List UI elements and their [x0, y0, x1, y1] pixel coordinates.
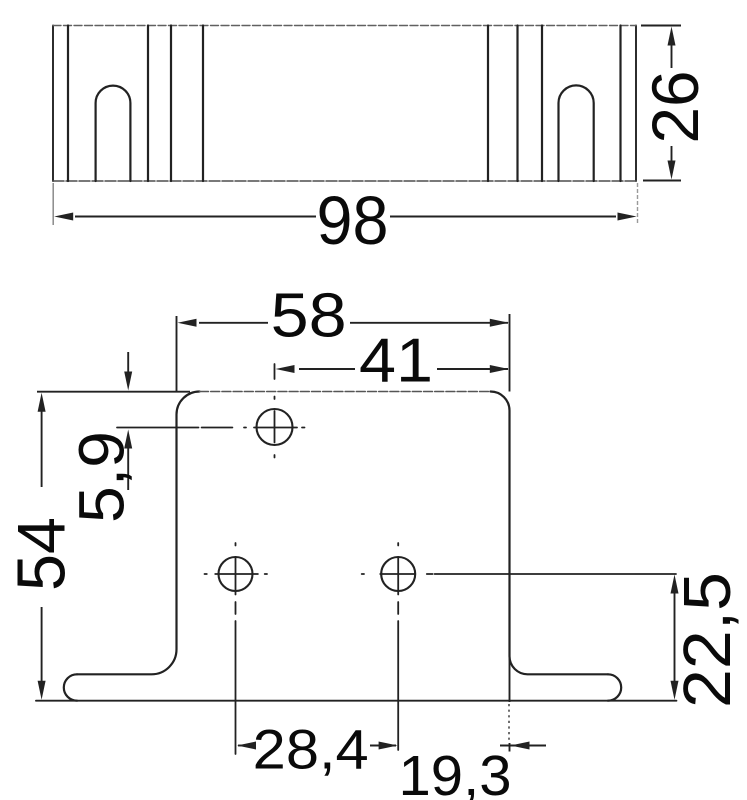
svg-text:19,3: 19,3 [399, 744, 512, 800]
svg-text:22,5: 22,5 [670, 572, 745, 708]
dim 98 arrow right [618, 213, 637, 221]
dim 26 line lower [671, 146, 673, 162]
top view inner line left offset [67, 26, 69, 182]
left middle hole [219, 557, 253, 591]
top hole horizontal centerline + 5,9 extension [117, 427, 199, 429]
bracket outline right part [491, 392, 609, 675]
top view right slot [559, 85, 594, 181]
top view vertical line x517 [516, 26, 518, 182]
dim 58 right extension [509, 314, 511, 392]
top view vertical line x542 [541, 26, 543, 182]
dim 41 line right [437, 368, 508, 370]
dim 41 arrow left [276, 365, 295, 373]
flange left end arc [64, 674, 77, 700]
dim 54 top extension [37, 391, 190, 393]
dim 19,3 extension (plate edge down, solid through flange) [509, 656, 511, 702]
svg-text:26: 26 [638, 71, 712, 144]
dim 26 line upper [671, 44, 673, 68]
dim 26 extension top [641, 25, 681, 27]
top view vertical line x171 [170, 26, 172, 182]
dim 98 line right [390, 216, 616, 218]
dim 28,4 line left stub [238, 745, 253, 747]
dim 54 arrow down [38, 681, 46, 700]
right middle hole [381, 557, 415, 591]
dim 26 arrow down [668, 161, 676, 180]
left hole vertical centerline / 28,4 extension [235, 543, 237, 546]
svg-text:58: 58 [271, 282, 347, 351]
svg-text:5,9: 5,9 [65, 431, 137, 523]
flange right end arc [608, 674, 621, 700]
top view bottom edge [53, 180, 636, 182]
dim 5,9 lower arrow (up) [124, 430, 132, 449]
dim 98 extension left [52, 183, 54, 225]
dim 26 arrow up [668, 27, 676, 46]
dim 19,3 outside arrow (left-pointing) [511, 742, 530, 750]
dim 54 line upper [41, 410, 43, 487]
top view vertical line x488 [487, 26, 489, 182]
flange bottom edge with extensions [36, 700, 676, 702]
dim 22,5 line [674, 592, 676, 682]
bracket top edge [200, 391, 491, 393]
left hole horizontal centerline [205, 573, 207, 575]
dim 98 arrow left [54, 213, 73, 221]
top view left edge [52, 26, 54, 182]
dim 19,3 arrow tail [500, 745, 546, 747]
dim 28,4 arrow left [237, 742, 256, 750]
dim 5,9 upper arrow tail [127, 352, 129, 373]
dim 54 arrow up [38, 393, 46, 412]
dim 19,3 extension (tick across dim line) [509, 743, 511, 752]
right hole horizontal centerline / 22,5 extension [362, 573, 364, 575]
dim 22,5 arrow up [671, 575, 679, 594]
top view vertical line x148 [147, 26, 149, 182]
svg-text:41: 41 [359, 327, 433, 396]
dim 58 line left [199, 322, 268, 324]
dim 54 line lower [41, 607, 43, 682]
top view left slot [96, 86, 131, 181]
right hole vertical centerline / 19,3 extension [397, 543, 399, 546]
dim 58 line right [350, 322, 508, 324]
dim 28,4 line right stub [370, 745, 396, 747]
dim 5,9 upper arrow (down) [124, 372, 132, 391]
dim 22,5 arrow down [671, 681, 679, 700]
bracket outline left part [77, 392, 200, 675]
top view top edge [53, 25, 636, 27]
dim 98 extension right [637, 183, 639, 225]
top view inner line right offset [619, 26, 621, 182]
top hole [257, 409, 293, 445]
dim 41 line left [299, 368, 355, 370]
top view right edge [635, 26, 637, 182]
dim 58 arrow right [490, 319, 509, 327]
svg-text:28,4: 28,4 [253, 718, 369, 781]
dim 28,4 / 19,3 shared arrow right [379, 742, 398, 750]
dim 98 line left [75, 216, 316, 218]
top view vertical line x203 [202, 26, 204, 182]
svg-text:54: 54 [4, 517, 80, 591]
dim 58 arrow left [178, 319, 197, 327]
dim 26 extension bottom [643, 180, 681, 182]
dim 5,9 lower arrow tail [127, 447, 129, 490]
top hole vertical centerline [274, 364, 276, 379]
dim 41 arrow right [490, 365, 509, 373]
dim 19,3 extension (dotted portion) [508, 704, 510, 743]
svg-text:98: 98 [317, 182, 389, 259]
dim 58 left extension (plate edge up) [176, 316, 178, 392]
